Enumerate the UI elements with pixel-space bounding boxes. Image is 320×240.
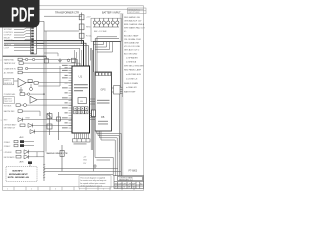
net label list right [124, 16, 146, 93]
svg-text:NOTE: GROUND LUG: NOTE: GROUND LUG [8, 177, 30, 179]
svg-text:DWG PT-6803: DWG PT-6803 [128, 12, 139, 14]
resistor R6 row [4, 110, 40, 116]
battery input enclosure BT1 [91, 18, 121, 41]
svg-text:to SIREN A: to SIREN A [126, 61, 137, 64]
wire rail right [119, 94, 121, 152]
svg-text:PDF: PDF [11, 3, 35, 26]
varistor RV2 row [4, 144, 34, 148]
svg-text:AC SENSE: AC SENSE [4, 71, 14, 74]
svg-text:TEST CCT: TEST CCT [4, 101, 12, 103]
svg-text:MAINS FAIL: MAINS FAIL [4, 58, 14, 61]
svg-text:4: 4 [79, 189, 80, 191]
connector tab J2 [92, 110, 96, 117]
svg-text:KEYBOARD INPUT: KEYBOARD INPUT [9, 173, 28, 176]
op-amp U3 [30, 96, 37, 103]
resistor R5 row [4, 104, 72, 108]
svg-text:CHARGER IN: CHARGER IN [4, 67, 17, 70]
svg-text:REM: REM [26, 117, 30, 119]
svg-text:A3: A3 [140, 182, 142, 185]
keypad matrix dots [75, 108, 87, 113]
svg-text:BLU AUX TAMP: BLU AUX TAMP [124, 35, 139, 38]
svg-text:A2: A2 [115, 186, 117, 189]
svg-text:RED PANEL LAMP: RED PANEL LAMP [124, 69, 142, 72]
frame (sheet border) [3, 6, 144, 191]
connector J1 labels [4, 29, 13, 49]
copyright notes text [80, 177, 106, 188]
title block text [115, 176, 143, 188]
IC U1 text rows [74, 84, 88, 91]
svg-text:MAINBOARD 4+4: MAINBOARD 4+4 [119, 178, 133, 181]
revision box text [128, 8, 140, 14]
svg-text:BUS INFO: BUS INFO [13, 170, 23, 172]
svg-text:to SPEAKER: to SPEAKER [126, 57, 138, 60]
wire stub mid [44, 53, 58, 56]
power bus wire thick top [4, 41, 84, 66]
grid reference letters [7, 189, 104, 191]
wire bottom bus 3 [58, 173, 113, 175]
svg-text:EARTH REF: EARTH REF [4, 110, 16, 113]
op-amp U2 [18, 78, 26, 87]
IC U1 bottom pin stubs [75, 133, 89, 139]
diode D4 row [4, 150, 44, 154]
monitor block label [3, 97, 14, 104]
svg-text:SH 1: SH 1 [128, 187, 132, 189]
svg-text:AUX PWR: AUX PWR [4, 39, 13, 42]
svg-text:1: 1 [7, 189, 8, 191]
wire stub near badge [37, 20, 44, 22]
svg-text:BLK GROUND: BLK GROUND [124, 54, 138, 56]
svg-text:REG1: REG1 [86, 27, 91, 29]
svg-text:RED MAINS LIVE: RED MAINS LIVE [124, 16, 141, 19]
svg-text:GRN DATA LINE: GRN DATA LINE [124, 42, 140, 45]
svg-text:LITHIUM BATT: LITHIUM BATT [4, 124, 18, 127]
bus vertical A [43, 21, 45, 181]
svg-text:SUPPLY: SUPPLY [4, 80, 11, 82]
battery bus wire 3 [97, 37, 117, 72]
svg-text:TAMPER SW: TAMPER SW [4, 62, 16, 65]
svg-text:RELAY: RELAY [4, 36, 11, 39]
capacitor C2 [28, 161, 32, 164]
resistor R1 row [4, 67, 72, 70]
power bus wire third [4, 46, 89, 66]
battery bus wire [94, 41, 121, 72]
IC U1 left pin stubs [69, 66, 73, 129]
wire bundle DS1 down [94, 131, 122, 176]
IC U1 top pin stubs [75, 48, 91, 66]
svg-text:PT-6803: PT-6803 [129, 171, 138, 173]
cable marker hatches [43, 164, 45, 178]
svg-text:LITHIUM: LITHIUM [4, 152, 12, 154]
notes box dashed [6, 167, 37, 182]
resistor R4 [34, 82, 38, 85]
diode D2 row [4, 123, 72, 129]
svg-text:5: 5 [103, 189, 104, 191]
net labels power [83, 156, 88, 164]
svg-text:SAFETY: SAFETY [4, 44, 12, 47]
svg-text:be copied without prior consen: be copied without prior consent [80, 182, 105, 185]
svg-text:2: 2 [31, 189, 32, 191]
svg-text:BRN CHARGE LINE A: BRN CHARGE LINE A [124, 23, 145, 26]
svg-text:YEL SIGNAL PGM: YEL SIGNAL PGM [124, 38, 141, 41]
IC U1 [72, 66, 90, 133]
svg-text:TRANSFORMER CTR: TRANSFORMER CTR [55, 12, 79, 15]
svg-text:KEYSWITCH: KEYSWITCH [4, 127, 16, 129]
ground G3 [93, 164, 97, 168]
IC U1 right pin stubs [90, 99, 96, 120]
capacitor C3 [45, 56, 49, 63]
svg-text:LOOP: LOOP [4, 47, 10, 49]
svg-text:SHIELD DRAIN: SHIELD DRAIN [124, 82, 139, 85]
svg-text:AVR: AVR [20, 136, 25, 139]
net label rail [122, 14, 124, 97]
svg-text:ZONE 1: ZONE 1 [4, 142, 11, 144]
svg-text:of the manufacturer issue 2: of the manufacturer issue 2 [80, 184, 102, 187]
svg-text:EARTH REF: EARTH REF [124, 91, 136, 94]
svg-text:to ZONE 1-8: to ZONE 1-8 [126, 77, 138, 80]
PDF badge [0, 0, 40, 28]
display module DS1 [95, 72, 112, 131]
svg-text:WHT BELL TRIGGER: WHT BELL TRIGGER [124, 66, 144, 68]
svg-text:BAT+ 12V BAT-: BAT+ 12V BAT- [94, 30, 107, 33]
wire net T1 input [44, 15, 82, 17]
wire D4-D5 tie [36, 152, 38, 157]
ground G1 [19, 90, 23, 92]
supervisor block label [3, 78, 13, 84]
pin label TX RX [96, 113, 101, 114]
svg-text:3: 3 [1, 120, 2, 122]
svg-text:6/03: 6/03 [118, 187, 121, 189]
svg-text:GND: GND [83, 160, 88, 162]
ground G2 [58, 58, 62, 62]
sub-module LB1 [78, 98, 86, 104]
wire T1 secondary [44, 30, 79, 32]
copyright notes box [79, 176, 111, 189]
svg-text:to DIALLER: to DIALLER [126, 86, 137, 89]
svg-text:for service use only and may n: for service use only and may not [80, 179, 106, 182]
diode D3 row [30, 130, 72, 134]
svg-text:MONITOR: MONITOR [4, 83, 13, 85]
resistor R3 [28, 80, 32, 83]
svg-text:U1: U1 [79, 75, 83, 79]
svg-text:BATTERY: BATTERY [4, 97, 13, 100]
capacitor C4 [67, 58, 75, 62]
battery bus wire 2 [95, 39, 119, 72]
display DS1 text rows [97, 100, 110, 104]
svg-text:INT BUS: INT BUS [4, 106, 12, 108]
revision box [128, 8, 147, 14]
svg-text:SYSTEM: SYSTEM [4, 29, 12, 31]
svg-text:WHT MAINS FAIL OUT: WHT MAINS FAIL OUT [124, 27, 146, 30]
section divider bus [3, 55, 46, 57]
svg-text:3: 3 [55, 189, 56, 191]
wire bottom bus 2 [44, 170, 121, 172]
capacitor C5 [57, 112, 61, 140]
crystal Y1 [47, 112, 52, 135]
svg-text:GPS: GPS [101, 89, 106, 92]
svg-text:GRY AUX OUT 2: GRY AUX OUT 2 [124, 49, 140, 52]
connector J1 pins [31, 27, 34, 54]
connector J4 strip [73, 139, 91, 142]
svg-text:CONTROL: CONTROL [4, 32, 13, 34]
svg-text:ORN BACKUP 12V: ORN BACKUP 12V [124, 20, 142, 23]
isolator opto U4 [60, 145, 64, 171]
svg-text:2: 2 [1, 60, 2, 62]
wire C2 stub [29, 164, 31, 167]
svg-text:VIO CLOCK LINE: VIO CLOCK LINE [124, 46, 141, 48]
relay K2 row [4, 62, 80, 66]
title block [114, 176, 144, 189]
svg-text:4: 4 [1, 150, 2, 152]
battery staircase wires [94, 42, 113, 52]
wire pair IC right [91, 48, 93, 150]
wire bottom bus 1 [44, 167, 118, 169]
wire J1 output [37, 42, 44, 44]
connector J1 [31, 26, 37, 54]
battery feed wire down [120, 41, 122, 87]
diode D5 row [4, 155, 44, 159]
wires U2 cluster [14, 66, 72, 90]
grid reference side numerals [1, 60, 2, 152]
bus vertical B [45, 31, 47, 152]
connector J4 label [74, 143, 87, 144]
svg-text:OF 2: OF 2 [132, 187, 136, 189]
svg-text:BATTERY INPUT: BATTERY INPUT [102, 12, 121, 15]
wire J1 to IC comb [37, 48, 80, 50]
battery cell row BT1 [93, 18, 119, 27]
relay K1 row [4, 58, 78, 66]
keypad matrix S1 [74, 107, 88, 114]
svg-text:TRANSFORMER CTR: TRANSFORMER CTR [46, 152, 68, 155]
resistor R2 row [4, 71, 72, 74]
relay K3 row [4, 93, 45, 96]
svg-text:KEYBOARD: KEYBOARD [4, 156, 15, 159]
varistor RV1 row [4, 140, 34, 144]
header J3 [112, 86, 123, 94]
display DS1 header cells [96, 73, 111, 76]
power bus wire second [4, 43, 86, 66]
diode D1 row [4, 117, 72, 121]
capacitor C1 [30, 88, 33, 91]
notes box text [8, 170, 30, 179]
svg-text:+15V: +15V [86, 17, 91, 19]
svg-text:POWER FAIL: POWER FAIL [4, 93, 16, 96]
IC U1 left pin labels [62, 65, 68, 128]
wire rail mid [93, 72, 95, 150]
svg-text:to KEYPAD BUS: to KEYPAD BUS [126, 73, 142, 76]
svg-text:DB: DB [101, 116, 105, 119]
svg-text:AVR: AVR [20, 161, 25, 164]
svg-text:ZONE 2: ZONE 2 [4, 146, 11, 148]
wire U3 out [37, 99, 72, 101]
transformer T1 [79, 13, 84, 45]
svg-text:OUTPUT: OUTPUT [4, 35, 13, 37]
transformer T1 value labels [86, 17, 92, 38]
svg-text:REV A SCH 2.1: REV A SCH 2.1 [128, 8, 140, 11]
display DS1 lower text rows [98, 121, 108, 125]
wire fan to J1 [14, 28, 31, 51]
svg-text:This circuit diagram is suppli: This circuit diagram is supplied [80, 177, 105, 180]
